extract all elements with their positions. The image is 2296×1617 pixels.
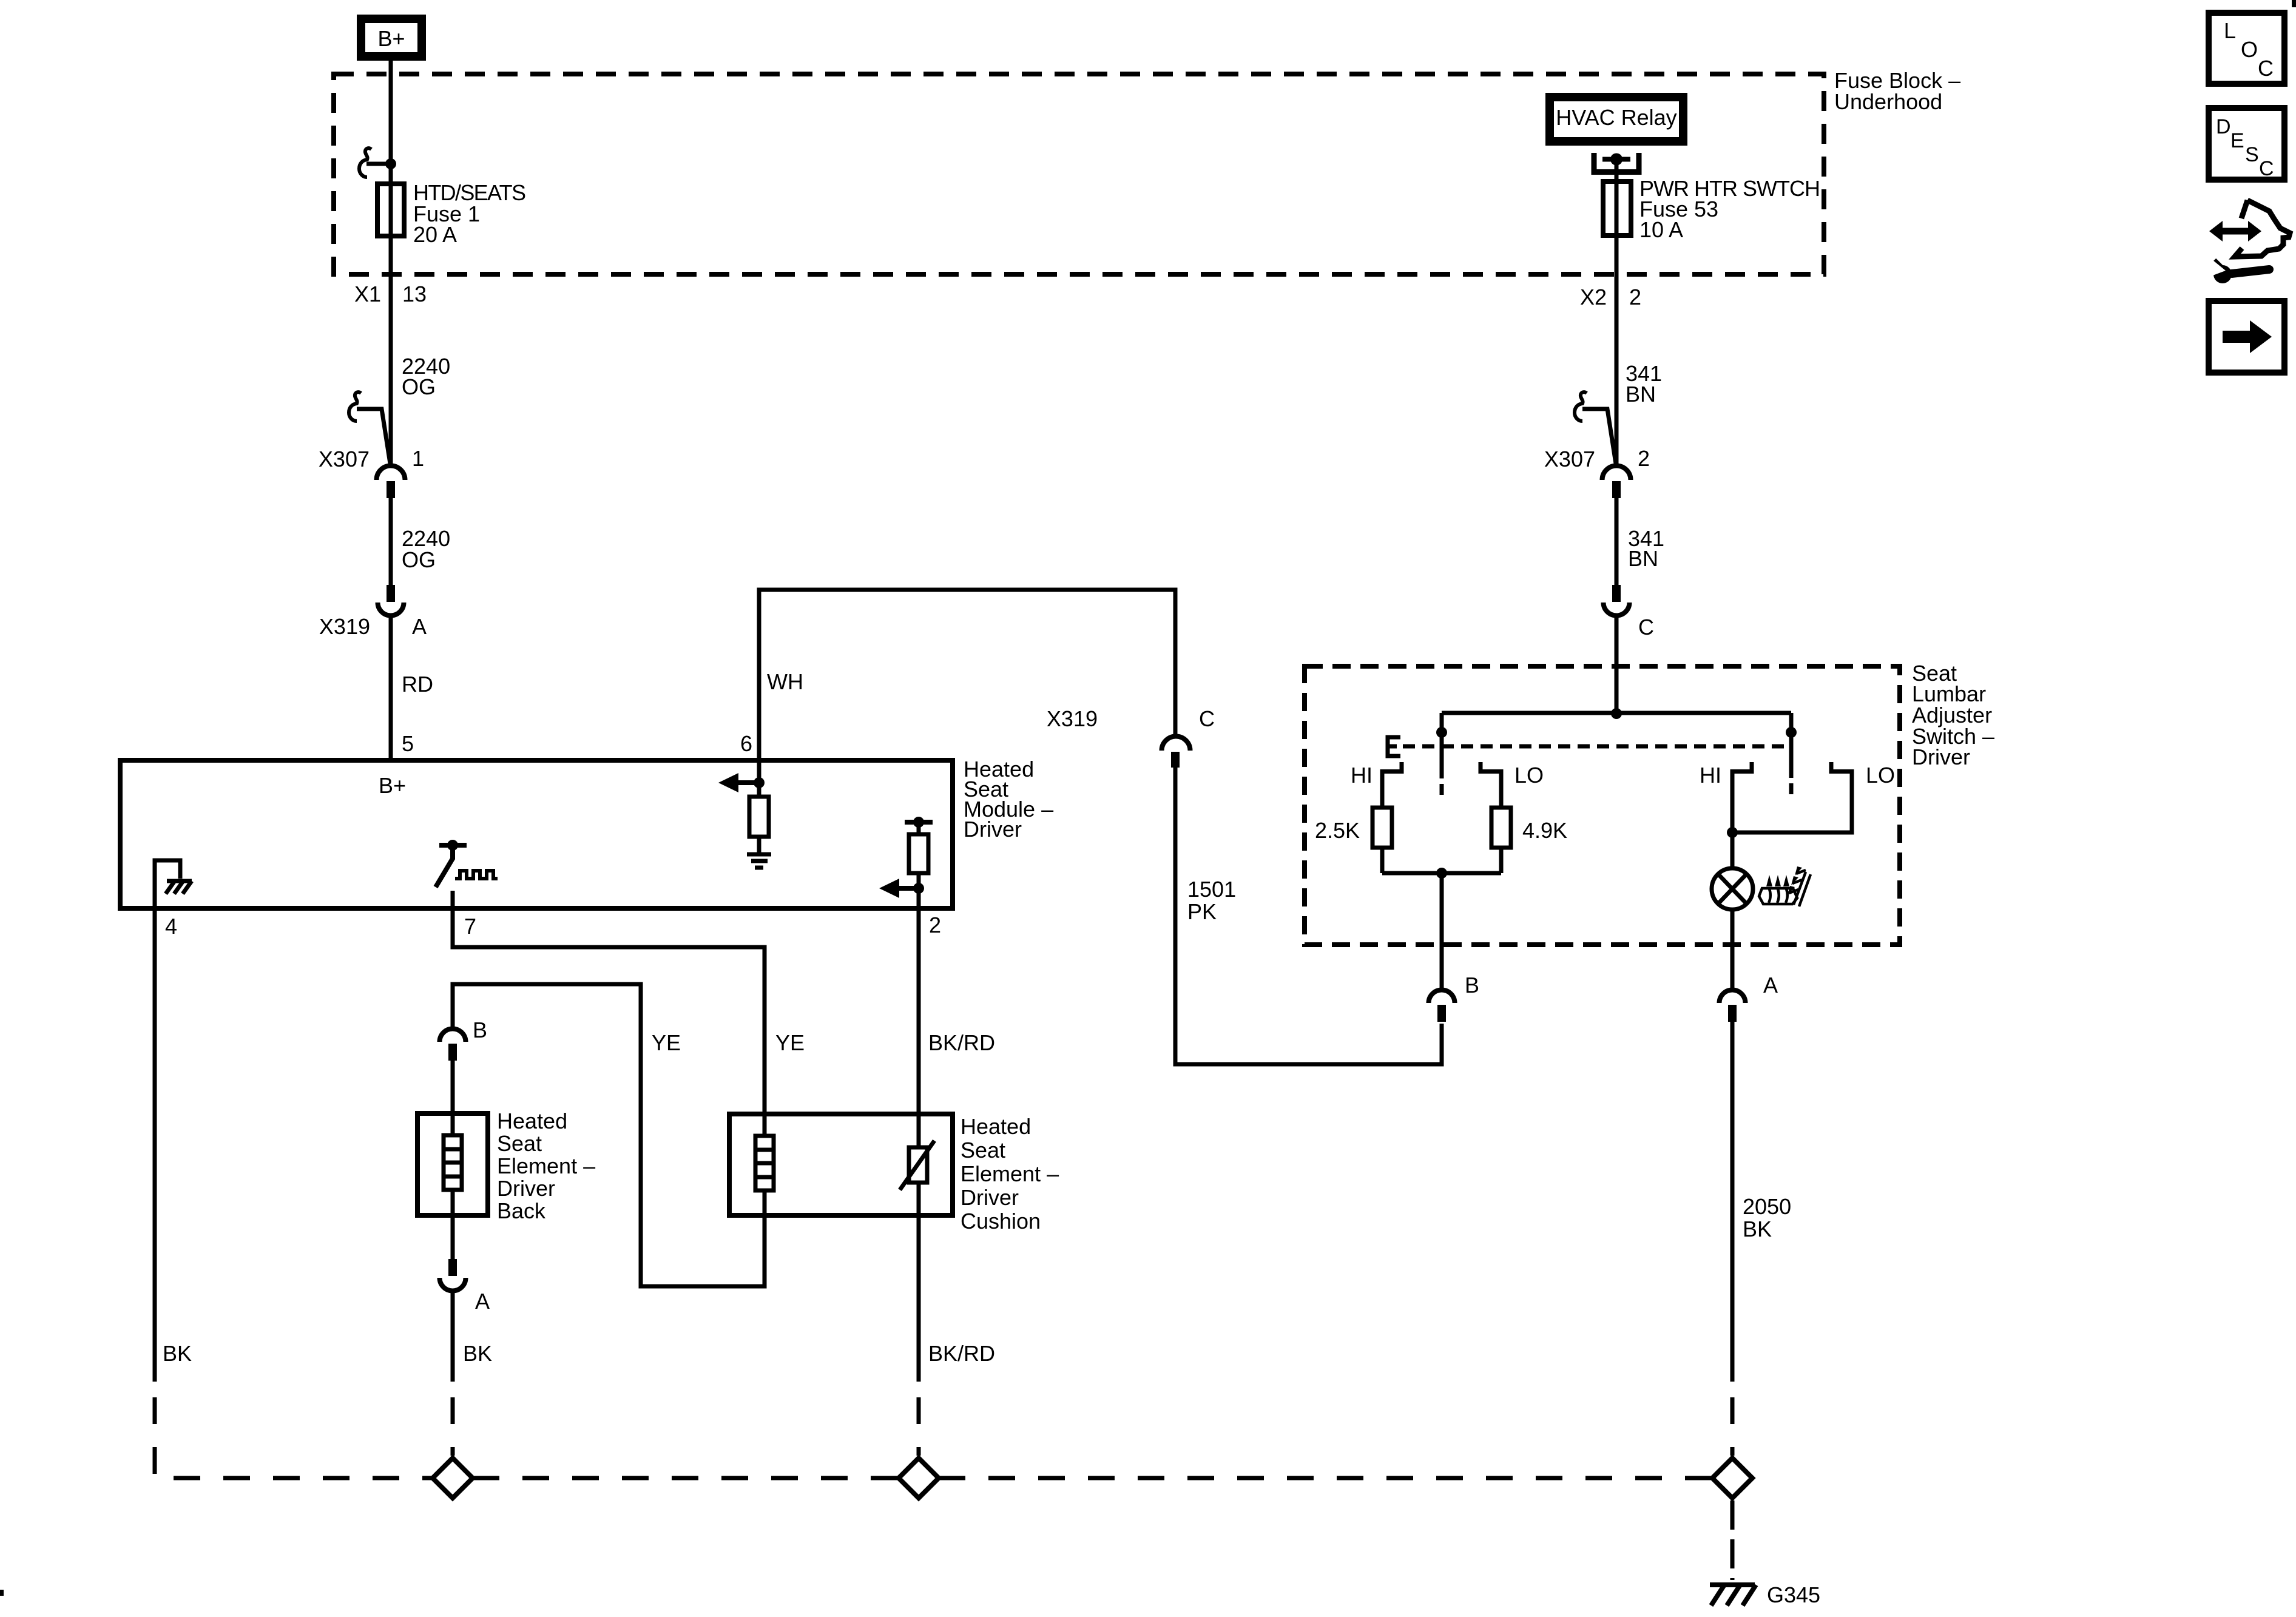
wire relay to fuse 53 (1615, 159, 1619, 465)
ground G345 (1710, 1582, 1755, 1587)
svg-text:OG: OG (402, 374, 436, 399)
wire module pin 2 BK/RD through thermistor to splice (917, 908, 921, 1382)
svg-text:LO: LO (1514, 763, 1544, 788)
wire element A to splice, label BK (451, 1292, 455, 1382)
svg-text:HI: HI (1351, 763, 1373, 788)
module internal B+ label (379, 773, 406, 798)
connector B at seat back element (473, 1018, 487, 1042)
wire labels YE YE BK/RD (652, 1030, 995, 1055)
svg-text:YE: YE (652, 1030, 681, 1055)
wire label 2240 OG (402, 354, 450, 399)
pin label 5 (402, 731, 414, 756)
svg-text:X1: X1 (354, 282, 381, 306)
svg-text:13: 13 (402, 282, 427, 306)
svg-text:BN: BN (1626, 382, 1656, 407)
svg-text:BN: BN (1628, 546, 1658, 571)
Heated Seat Element - Driver Cushion box (729, 1114, 953, 1215)
fuse F1 HTD/SEATS 20A (377, 184, 404, 236)
svg-text:4: 4 (165, 914, 177, 939)
dashed drop to ground (1730, 1501, 1735, 1580)
wire 1501 PK down and right to lumbar switch pin B (1175, 768, 1442, 1064)
icon DESC box (2209, 108, 2284, 180)
splice diamond left (433, 1458, 473, 1498)
page corner marks (2292, 0, 2296, 7)
fuse F53 PWR HTR SWTCH 10A (1603, 181, 1631, 235)
svg-text:YE: YE (775, 1030, 805, 1055)
svg-text:C: C (1638, 615, 1654, 640)
svg-text:BK: BK (163, 1341, 192, 1366)
junction dot at fuse 1 clip (385, 158, 396, 169)
thermistor symbol (909, 1147, 927, 1183)
left LO contact (1481, 762, 1501, 808)
svg-text:1501: 1501 (1187, 877, 1236, 902)
svg-text:1: 1 (412, 446, 424, 471)
svg-text:2: 2 (929, 913, 941, 937)
label Fuse Block - Underhood (1834, 68, 1960, 114)
svg-text:D: D (2216, 115, 2231, 138)
svg-text:B+: B+ (377, 26, 405, 51)
svg-text:BK: BK (463, 1341, 492, 1366)
svg-text:PK: PK (1187, 899, 1217, 924)
svg-text:B: B (1465, 973, 1479, 998)
pin 6 label and WH wire up to 1501 PK (740, 669, 803, 756)
svg-text:Element –: Element – (497, 1153, 595, 1178)
wire X307-1 to X319-A (389, 498, 393, 585)
heating element symbol back (444, 1135, 462, 1190)
pin labels 4 7 2 below module (165, 913, 941, 939)
connector A below lumbar switch (1720, 990, 1746, 1004)
svg-text:6: 6 (740, 731, 752, 756)
svg-text:A: A (1763, 973, 1778, 998)
left HI contact (1382, 762, 1402, 808)
E bracket mechanical link (1388, 737, 1400, 756)
svg-text:E: E (2230, 129, 2244, 152)
resistor 4.9K (1491, 808, 1511, 848)
wire X307-2 down, label 341 BN second (1615, 498, 1619, 585)
svg-text:2: 2 (1629, 285, 1641, 309)
clip at connector X307 pin 1 (349, 392, 361, 421)
svg-text:WH: WH (767, 669, 803, 694)
dashed linkage line (1403, 744, 1791, 749)
indicator lamp (1730, 832, 1735, 868)
svg-text:A: A (475, 1289, 490, 1314)
svg-text:20 A: 20 A (413, 222, 457, 247)
svg-text:C: C (2259, 157, 2274, 180)
heated seat icon (1759, 866, 1811, 906)
wire module pin 7 through YE loop to seat back element (453, 891, 765, 1286)
wire B+ to fuse 1 and down to connector X307 (389, 61, 393, 465)
connector C (male pin / female cup) (1612, 585, 1621, 602)
svg-text:X2: X2 (1580, 285, 1607, 309)
icon LOC box (2209, 13, 2284, 84)
wire label 341 BN (1626, 361, 1662, 407)
connector A at seat back element (448, 1259, 457, 1276)
svg-text:OG: OG (402, 547, 436, 572)
module pin6 internal: junction dot, arrow, resistor, ground (757, 760, 761, 797)
svg-text:7: 7 (464, 914, 476, 939)
left switch pole (1440, 713, 1444, 778)
wire label 2240 OG second (402, 526, 450, 572)
relay pin bracket (1594, 153, 1639, 172)
svg-text:LO: LO (1866, 763, 1895, 788)
right switch pole (1789, 713, 1794, 778)
connector X307 pin 2 (1602, 465, 1631, 480)
svg-text:BK/RD: BK/RD (928, 1341, 995, 1366)
label X2 pin 2 (1580, 285, 1641, 309)
dashed ground bus (473, 1476, 899, 1480)
wire C into lumbar switch (1615, 616, 1619, 713)
svg-text:Back: Back (497, 1198, 546, 1223)
svg-text:Seat: Seat (497, 1131, 542, 1156)
svg-text:10 A: 10 A (1639, 217, 1683, 242)
lumbar pin labels B and A (1465, 973, 1778, 998)
wire module pin 4 to ground bus, label BK (153, 908, 157, 1382)
svg-text:Element –: Element – (961, 1161, 1059, 1186)
svg-text:Underhood: Underhood (1834, 89, 1942, 114)
svg-text:C: C (2258, 56, 2274, 81)
svg-text:Cushion: Cushion (961, 1209, 1041, 1234)
svg-text:B: B (473, 1018, 487, 1042)
svg-text:Heated: Heated (961, 1114, 1031, 1139)
svg-text:X319: X319 (319, 614, 370, 639)
clip at fuse 1 (359, 148, 371, 177)
svg-text:C: C (1199, 706, 1215, 731)
Heated Seat Element - Driver Back box (417, 1113, 488, 1215)
HVAC Relay box (1550, 97, 1683, 141)
connector X319 pin A (male pin / female cup) (387, 585, 395, 602)
svg-text:Driver: Driver (1912, 744, 1970, 769)
splice diamond right (1712, 1458, 1752, 1498)
svg-text:RD: RD (402, 672, 433, 697)
svg-text:HVAC Relay: HVAC Relay (1556, 105, 1676, 130)
junction dot feed from C (1611, 708, 1622, 719)
svg-text:BK/RD: BK/RD (928, 1030, 995, 1055)
icon service info (car with arrow and wrench) (2235, 200, 2290, 257)
clip at connector X307 pin 2 (1575, 392, 1587, 421)
icon next-page arrow box (2209, 301, 2284, 373)
battery feed B+ box (361, 19, 422, 56)
module pin4 internal: chassis ground (155, 860, 180, 908)
svg-text:Seat: Seat (961, 1138, 1005, 1163)
svg-text:Driver: Driver (497, 1176, 555, 1201)
svg-text:2.5K: 2.5K (1315, 818, 1360, 843)
fuse block underhood dashed box (334, 74, 1824, 274)
resistor join and pin B drop (1382, 871, 1501, 876)
svg-text:G345: G345 (1767, 1582, 1820, 1607)
svg-text:X307: X307 (1544, 447, 1595, 471)
heating element symbol cushion (755, 1136, 774, 1190)
wire 2050 BK down to splice (1730, 1022, 1735, 1382)
Heated Seat Module - Driver box (120, 760, 953, 908)
connector B below lumbar switch (1429, 990, 1455, 1004)
wire X319-A to module pin 5, label RD (389, 616, 393, 760)
svg-text:5: 5 (402, 731, 414, 756)
svg-text:Driver: Driver (961, 1185, 1019, 1210)
svg-text:2050: 2050 (1743, 1194, 1791, 1219)
svg-text:BK: BK (1743, 1217, 1772, 1241)
svg-text:2: 2 (1638, 446, 1650, 471)
svg-text:B+: B+ (379, 773, 406, 798)
svg-text:X307: X307 (319, 447, 370, 471)
svg-text:HI: HI (1700, 763, 1721, 788)
svg-text:Driver: Driver (964, 817, 1022, 842)
Seat Lumbar Adjuster Switch - Driver dashed box (1305, 666, 1900, 945)
connector X307 pin 1 (female arc / male pin) (377, 465, 405, 480)
svg-text:4.9K: 4.9K (1522, 818, 1567, 843)
module pin7 internal: PWM switch (439, 843, 467, 848)
svg-text:A: A (412, 614, 427, 639)
connector X319 pin C (1162, 737, 1190, 751)
right HI contact (1732, 762, 1752, 832)
svg-text:Heated: Heated (497, 1109, 567, 1133)
svg-text:S: S (2245, 143, 2259, 166)
svg-text:O: O (2241, 37, 2258, 62)
svg-text:X319: X319 (1047, 706, 1098, 731)
resistor 2.5K (1373, 808, 1392, 848)
splice diamond middle (899, 1458, 939, 1498)
module pin2 internal: resistor with arrow (905, 820, 933, 825)
right LO contact (1732, 762, 1852, 832)
switch feed rail (1442, 711, 1791, 715)
svg-text:L: L (2224, 18, 2236, 43)
label X1 pin 13 (354, 282, 427, 306)
